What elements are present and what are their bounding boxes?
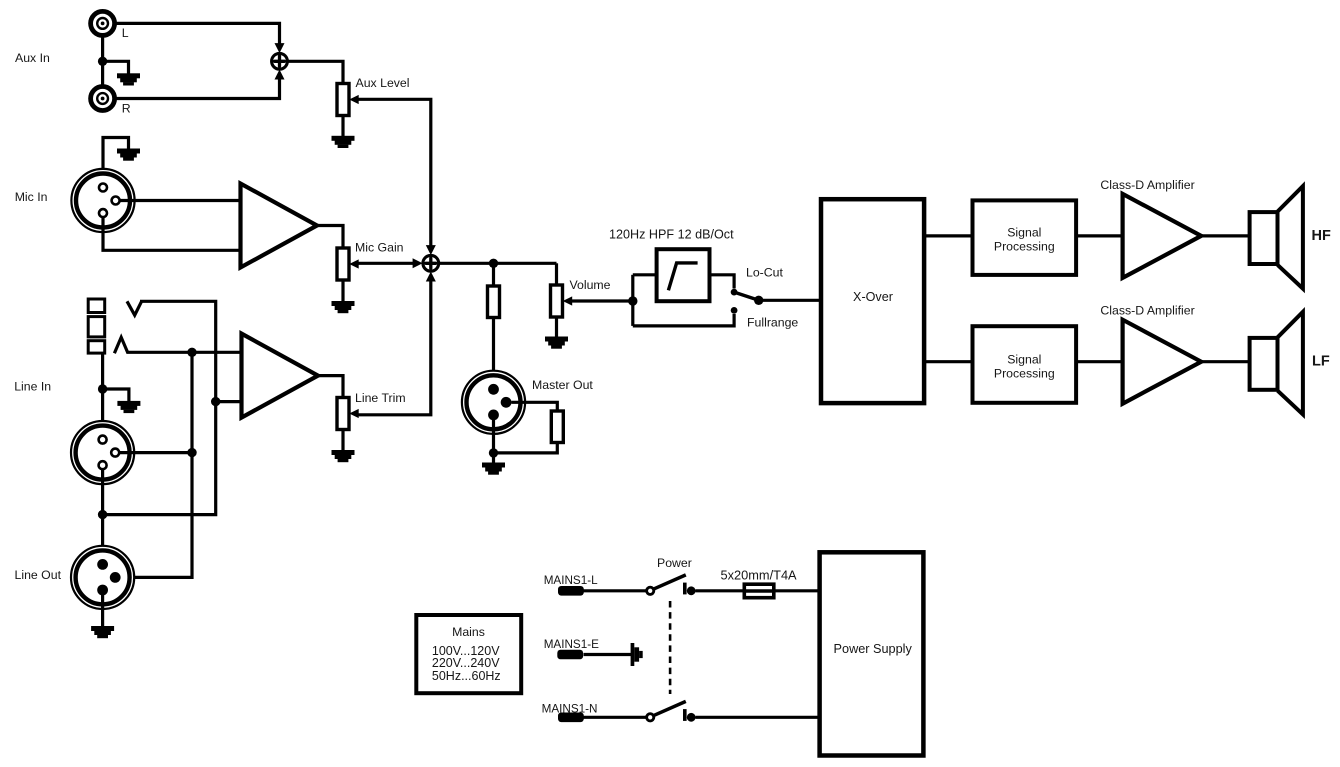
svg-text:Mic Gain: Mic Gain [355, 241, 404, 255]
wire Line Trim wiper to main summer [359, 280, 431, 415]
ground Line Out [91, 626, 114, 638]
svg-text:Line Trim: Line Trim [355, 391, 406, 405]
svg-text:Line In: Line In [14, 379, 51, 393]
arrow into summer from R [275, 70, 285, 80]
svg-text:Aux Level: Aux Level [356, 76, 410, 90]
summing node aux L+R [272, 53, 288, 69]
connector RCA Aux R [91, 87, 115, 111]
wire jack tip bus [103, 301, 216, 514]
svg-text:X-Over: X-Over [853, 290, 893, 304]
wire E to chassis earth [584, 653, 632, 656]
svg-text:Mains: Mains [452, 625, 485, 639]
connector XLR Line Out [71, 546, 134, 609]
connector RCA Aux L [91, 11, 115, 35]
wire jack ring to line amp [127, 351, 242, 354]
svg-text:50Hz...60Hz: 50Hz...60Hz [432, 669, 501, 683]
wire fuse to power supply [774, 589, 820, 592]
connector XLR Master Out [462, 371, 525, 434]
amplifier Class-D HF [1123, 194, 1202, 278]
wire mic pin3 to preamp [103, 218, 241, 251]
wire aux shield to ground [103, 61, 129, 73]
wire HPF split vertical [631, 275, 634, 326]
amplifier Class-D LF [1123, 320, 1202, 404]
svg-text:Aux In: Aux In [15, 51, 50, 65]
arrow into summer from L [275, 43, 285, 53]
wire Aux Level to ground [341, 116, 344, 137]
potentiometer Mic Gain [337, 248, 359, 280]
wire mic shield to ground [103, 138, 129, 184]
jack tip contact [127, 301, 142, 315]
junction ring bus [187, 348, 196, 357]
resistor master out series [488, 286, 500, 318]
wire resistor to Master Out pin1 [492, 318, 495, 386]
summing node main mix [423, 255, 439, 271]
wire aux L to summing node [116, 23, 280, 47]
wire aux R to summing node [116, 76, 280, 99]
wire tip to line amp lower input [216, 400, 242, 403]
wire N switch to power supply [696, 716, 820, 719]
ground mic shield [117, 149, 140, 161]
wire Line In pin2 to ring bus [120, 451, 193, 454]
wire amp HF to speaker [1201, 234, 1249, 237]
svg-text:5x20mm/T4A: 5x20mm/T4A [721, 568, 798, 583]
speaker HF driver [1250, 186, 1303, 289]
wire N to power switch [584, 716, 646, 719]
wire Mic Gain to ground [341, 280, 344, 302]
junction master ground [489, 448, 498, 457]
wire SP LF to amp [1076, 360, 1123, 363]
svg-text:Power: Power [657, 556, 692, 570]
wire X-Over HF out [924, 234, 972, 237]
junction tip to amp [211, 397, 220, 406]
svg-text:220V...240V: 220V...240V [432, 656, 500, 670]
wire HPF out to Lo-Cut contact [710, 275, 735, 289]
wire L to power switch [584, 589, 646, 592]
terminal MAINS1-L [558, 586, 584, 596]
wire Aux Level wiper to main summer [359, 99, 431, 247]
HPF response icon [668, 263, 697, 290]
wire Line Trim to ground [341, 430, 344, 451]
block Mains ratings [416, 615, 521, 693]
wire amp LF to speaker [1201, 360, 1249, 363]
wire Master pin2 to resistor [512, 402, 558, 411]
switch Power pole L [647, 575, 696, 595]
ground below Line Trim [332, 450, 355, 462]
wire main summer to volume branch [440, 262, 557, 265]
wire SP HF to amp [1076, 234, 1123, 237]
ground below Mic Gain [332, 301, 355, 313]
svg-text:Master Out: Master Out [532, 378, 593, 392]
jack ring contact [114, 337, 128, 353]
wire X-Over LF out [924, 360, 972, 363]
wire switch to fuse [696, 589, 745, 592]
switch contact Lo-Cut [731, 289, 738, 296]
wire Mic Gain wiper to main summer [359, 262, 415, 265]
svg-text:120Hz HPF 12 dB/Oct: 120Hz HPF 12 dB/Oct [609, 228, 734, 242]
svg-text:Class-D Amplifier: Class-D Amplifier [1100, 178, 1194, 192]
potentiometer Aux Level [337, 84, 359, 116]
wire mic preamp out to Mic Gain [317, 226, 343, 249]
wire ring bus vertical [121, 352, 193, 577]
wire Volume wiper to HPF node [572, 299, 633, 302]
wire to HPF input [633, 273, 657, 276]
op-amp mic preamp [241, 184, 318, 268]
fuse F1 5x20mm/T4A [744, 584, 774, 598]
speaker LF driver [1250, 312, 1303, 415]
svg-text:Class-D Amplifier: Class-D Amplifier [1100, 304, 1194, 318]
ground below Volume [545, 337, 568, 349]
svg-text:Fullrange: Fullrange [747, 316, 798, 330]
filter block 120Hz HPF [657, 249, 710, 301]
arrow into main summer from mic [413, 258, 423, 268]
svg-text:Lo-Cut: Lo-Cut [746, 266, 783, 280]
wire XLR chain [101, 469, 104, 561]
junction master out branch [489, 259, 498, 268]
switch pole [754, 296, 763, 305]
block X-Over [821, 199, 924, 403]
switch Power pole N [647, 701, 696, 721]
svg-text:R: R [122, 101, 131, 115]
ground below Aux Level [332, 136, 355, 148]
svg-text:HF: HF [1312, 228, 1331, 244]
ground aux shield [117, 73, 140, 85]
junction tip bus to chain [98, 510, 107, 519]
potentiometer Line Trim [337, 398, 359, 430]
svg-text:Signal: Signal [1007, 353, 1041, 367]
op-amp line amp [242, 334, 319, 418]
wire switch pole to X-Over [759, 299, 821, 302]
wire mic pin2 to preamp [120, 199, 241, 202]
svg-text:Power Supply: Power Supply [834, 642, 913, 656]
svg-text:Mic In: Mic In [15, 190, 48, 204]
wire to Volume pot [555, 263, 558, 285]
wire Line Out pin3 to ground [101, 595, 104, 627]
switch lever Lo-Cut/Fullrange [734, 292, 759, 300]
wire jack sleeve down [101, 354, 104, 438]
junction Line In pin2 [187, 448, 196, 457]
potentiometer Volume [551, 285, 573, 317]
svg-text:LF: LF [1312, 354, 1330, 370]
svg-text:Processing: Processing [994, 240, 1055, 254]
wire sleeve to ground [103, 389, 129, 401]
junction HPF input split [628, 296, 637, 305]
wire to master resistor [492, 263, 495, 286]
connector XLR Mic In [71, 169, 134, 232]
svg-text:MAINS1-L: MAINS1-L [544, 574, 598, 587]
terminal MAINS1-E [557, 650, 583, 660]
svg-text:Volume: Volume [570, 278, 611, 292]
block Signal Processing HF [973, 200, 1077, 275]
svg-text:Signal: Signal [1007, 226, 1041, 240]
block Power Supply [820, 552, 924, 755]
wire line amp out to Line Trim [318, 376, 343, 398]
svg-text:Processing: Processing [994, 367, 1055, 381]
switch contact Fullrange [731, 307, 738, 314]
svg-text:Line Out: Line Out [15, 568, 62, 582]
switch mechanical link (dashed) [669, 601, 672, 694]
wire resistor return [494, 443, 558, 453]
connector 1/4 inch jack Line In [88, 299, 105, 353]
arrow into main summer from aux [426, 245, 436, 255]
wire aux shield chain [101, 37, 104, 86]
junction sleeve ground [98, 384, 107, 393]
ground Master Out [482, 463, 505, 475]
junction aux shield [98, 57, 107, 66]
terminal MAINS1-N [558, 713, 584, 723]
wire Master pin3 to ground [492, 420, 495, 464]
connector XLR Line In [71, 421, 134, 484]
svg-text:MAINS1-E: MAINS1-E [544, 638, 599, 651]
block Signal Processing LF [973, 326, 1077, 403]
svg-text:L: L [122, 26, 129, 40]
wire bypass to Fullrange contact [633, 314, 734, 326]
arrow into main summer from line [426, 272, 436, 282]
ground line in shield [117, 401, 140, 413]
earth symbol (protective earth) [631, 643, 643, 666]
wire Volume to ground [555, 317, 558, 337]
wire summer to Aux Level pot [288, 61, 344, 83]
resistor master out load [551, 411, 563, 443]
